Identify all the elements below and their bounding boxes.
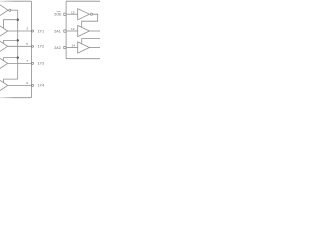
pin 1Y4 terminal <box>32 84 34 86</box>
wire enable branch 1 <box>4 20 18 29</box>
pin 1Y3 terminal <box>32 62 34 64</box>
op-amp G2 (2OE enable inverter) <box>78 9 90 20</box>
pin 2OE terminal <box>64 13 66 15</box>
wire enable branch to B6 (from off-frame bus) <box>82 39 100 44</box>
buffer B4 (cropped triangle) <box>0 80 8 90</box>
left chip box U1 outline (cropped at left) <box>0 0 31 2</box>
svg-text:1Y3: 1Y3 <box>38 62 44 66</box>
pin 1Y1 terminal <box>32 30 34 32</box>
svg-text:15: 15 <box>71 10 75 14</box>
wire enable branch 3 <box>4 58 18 61</box>
buffer B3 (cropped triangle) <box>0 58 8 68</box>
svg-text:2A2: 2A2 <box>54 46 60 50</box>
node J3 <box>17 56 19 58</box>
svg-text:3: 3 <box>26 27 28 31</box>
wire 2A2 input <box>66 47 78 49</box>
bubble on G1 output <box>9 9 11 11</box>
buffer B2 (cropped triangle) <box>0 41 8 51</box>
wire B6 output <box>89 47 100 49</box>
svg-text:1Y2: 1Y2 <box>38 45 44 49</box>
wire enable branch 2 <box>4 40 18 43</box>
svg-text:14: 14 <box>72 44 76 48</box>
wire 2OE input <box>66 13 78 15</box>
wire B4 output to pin 1Y4 <box>8 84 32 86</box>
wire enable branch 4 <box>4 79 18 83</box>
buffer B6 (2A2 driver) <box>78 42 90 53</box>
pin 1Y2 terminal <box>32 45 34 47</box>
wire B3 output to pin 1Y3 <box>8 62 32 64</box>
wire enable bus vertical <box>17 10 19 79</box>
wire B2 output to pin 1Y2 <box>8 45 32 47</box>
svg-text:2A1: 2A1 <box>54 29 60 33</box>
svg-text:7: 7 <box>26 59 28 63</box>
svg-text:2OE: 2OE <box>54 13 62 17</box>
svg-text:1Y1: 1Y1 <box>38 29 44 33</box>
node J1 <box>17 19 19 21</box>
wire 2A1 input <box>66 30 78 32</box>
svg-text:5: 5 <box>26 42 28 46</box>
buffer B1 (cropped triangle) <box>0 26 8 36</box>
pin 2A1 terminal <box>64 30 66 32</box>
wire B5 output <box>89 30 100 32</box>
svg-text:1Y4: 1Y4 <box>38 84 44 88</box>
wire B1 output to pin 1Y1 <box>8 30 32 32</box>
label 2OE overline <box>57 11 61 13</box>
buffer B5 (2A1 driver) <box>78 25 90 36</box>
wire G1 output to enable bus <box>11 9 18 11</box>
svg-text:9: 9 <box>26 81 28 85</box>
svg-text:12: 12 <box>71 27 75 31</box>
wire G2 output routing <box>82 14 98 27</box>
bubble on G2 output <box>90 13 92 15</box>
op-amp G1 (1OE enable inverter, cropped) <box>0 5 8 16</box>
right chip box U2 outline (cropped at right) <box>66 0 100 2</box>
pin 2A2 terminal <box>64 46 66 48</box>
node J2 <box>17 39 19 41</box>
